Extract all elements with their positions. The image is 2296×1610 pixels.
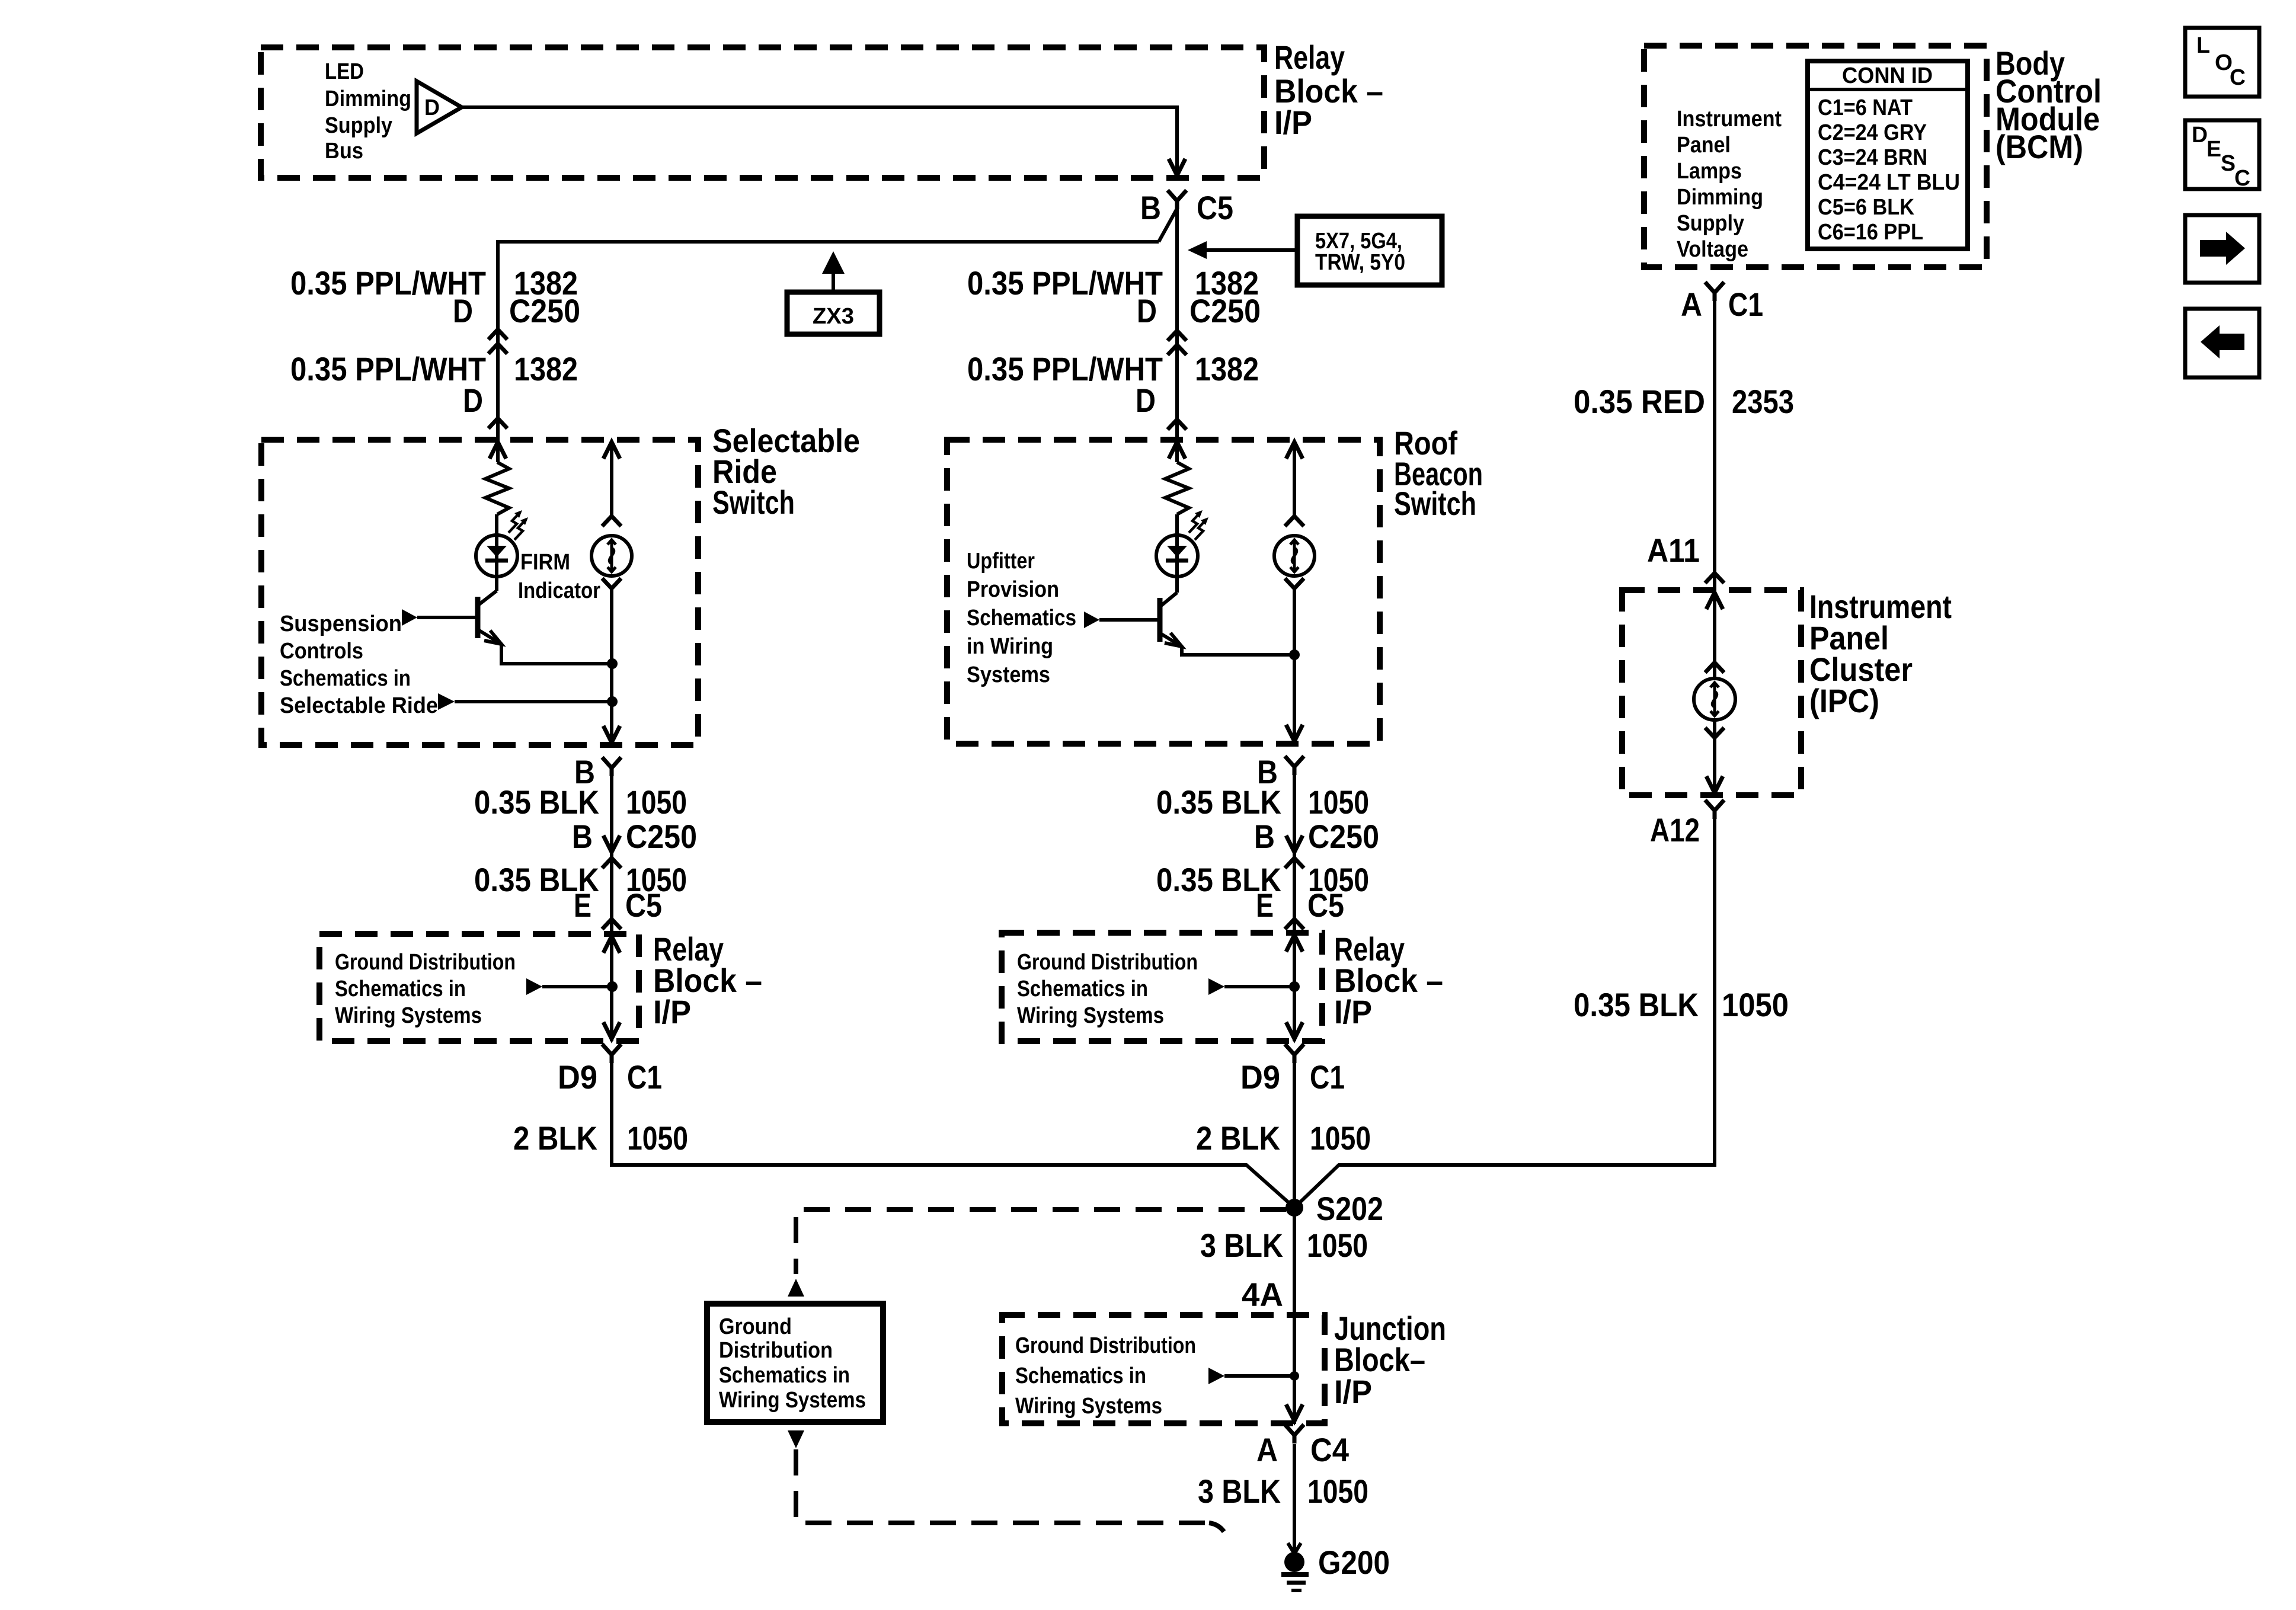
svg-text:1050: 1050 xyxy=(1307,1227,1368,1264)
svg-text:D9: D9 xyxy=(1240,1058,1280,1096)
junction dot (junction block) xyxy=(1290,1371,1299,1381)
svg-text:Schematics in: Schematics in xyxy=(719,1363,850,1388)
svg-text:(IPC): (IPC) xyxy=(1809,682,1879,719)
svg-text:C5: C5 xyxy=(1307,886,1344,924)
svg-text:B: B xyxy=(572,818,593,855)
svg-text:C1=6 NAT: C1=6 NAT xyxy=(1818,95,1913,120)
ground symbol bars xyxy=(1281,1572,1309,1577)
svg-text:Ground Distribution: Ground Distribution xyxy=(335,950,516,975)
connector symbol C250 (left) xyxy=(488,329,507,340)
connector symbol above lamp (roof) xyxy=(1285,516,1304,526)
connector symbol at switch (left) xyxy=(488,418,507,428)
svg-text:D: D xyxy=(463,382,483,419)
svg-text:C250: C250 xyxy=(1308,818,1379,855)
wire inside IPC lower xyxy=(1713,720,1716,793)
svg-text:0.35 PPL/WHT: 0.35 PPL/WHT xyxy=(967,350,1163,388)
svg-text:1050: 1050 xyxy=(627,1119,688,1157)
svg-text:C5: C5 xyxy=(1197,189,1233,226)
svg-text:0.35 BLK: 0.35 BLK xyxy=(1574,986,1699,1023)
reference box 5X7, 5G4, TRW, 5Y0 xyxy=(1297,216,1442,285)
arrow: selectable ride schematics link xyxy=(438,693,455,710)
wire: lamp branch upper xyxy=(610,442,613,516)
connector symbol C250 (center) xyxy=(1168,331,1187,341)
arrowhead leaving relay block bottom (left) xyxy=(603,1022,620,1039)
svg-text:C: C xyxy=(2234,166,2250,191)
connector symbol below BCM xyxy=(1705,282,1724,293)
junction dot (left relay ground) xyxy=(607,981,618,992)
wire: lamp branch upper (roof) xyxy=(1293,442,1296,516)
connector C5 pin B (relay block) xyxy=(1168,190,1187,201)
arrow from reference box to wire xyxy=(1207,248,1297,252)
arrow: ground distribution link (junction) xyxy=(1208,1368,1224,1384)
connector symbol at relay block (left) xyxy=(602,919,621,929)
wire: 0.35 BLK 1050 center vertical xyxy=(1293,767,1296,1041)
svg-text:D: D xyxy=(1136,382,1156,419)
svg-text:A: A xyxy=(1681,286,1702,323)
svg-text:1382: 1382 xyxy=(514,350,578,388)
arrow: suspension controls input xyxy=(402,609,417,626)
wire: emitter to lamp branch (roof) xyxy=(1182,646,1294,655)
resistor (selectable ride switch LED) xyxy=(485,462,509,514)
svg-text:Panel: Panel xyxy=(1677,133,1731,158)
resistor (roof beacon switch LED) xyxy=(1165,462,1189,514)
svg-text:C6=16 PPL: C6=16 PPL xyxy=(1818,220,1923,245)
LED light arrows (roof) xyxy=(1189,512,1201,533)
junction dot (link to lamp branch) xyxy=(607,696,618,707)
connector symbol above IPC lamp xyxy=(1705,662,1724,673)
nav box back arrow xyxy=(2185,309,2259,377)
connector symbol below switch (center) xyxy=(1285,756,1304,767)
svg-text:Schematics in: Schematics in xyxy=(1015,1363,1146,1388)
wire: 0.35 BLK 1050 from IPC to S202 xyxy=(1294,819,1715,1208)
svg-text:C4=24 LT BLU: C4=24 LT BLU xyxy=(1818,170,1960,195)
dashed box: Junction Block - I/P xyxy=(1002,1315,1325,1423)
ground G200 terminal dot xyxy=(1284,1552,1304,1572)
svg-text:Switch: Switch xyxy=(712,484,795,521)
svg-text:1050: 1050 xyxy=(1308,783,1369,821)
svg-text:4A: 4A xyxy=(1242,1276,1283,1313)
svg-text:B: B xyxy=(1254,818,1275,855)
svg-text:D: D xyxy=(1137,292,1157,329)
svg-text:2 BLK: 2 BLK xyxy=(1196,1119,1280,1157)
junction dot (center relay ground) xyxy=(1289,981,1300,992)
svg-text:ZX3: ZX3 xyxy=(813,304,854,329)
svg-text:3 BLK: 3 BLK xyxy=(1200,1227,1283,1264)
svg-text:S202: S202 xyxy=(1316,1190,1383,1227)
svg-text:Indicator: Indicator xyxy=(518,578,600,603)
svg-text:2 BLK: 2 BLK xyxy=(513,1119,597,1157)
nav box LOC xyxy=(2185,28,2259,97)
wire: diagonal joint from selectable ride branch xyxy=(1159,209,1177,242)
svg-text:B: B xyxy=(1140,189,1161,226)
nav box forward arrow xyxy=(2185,215,2259,283)
svg-text:Dimming: Dimming xyxy=(325,87,411,111)
wire: 0.35 RED 2353 from BCM xyxy=(1713,301,1716,572)
svg-text:Schematics in: Schematics in xyxy=(1017,977,1148,1001)
junction dot (emitter to lamp branch) xyxy=(607,658,618,669)
svg-text:Wiring Systems: Wiring Systems xyxy=(1015,1394,1162,1419)
svg-text:E: E xyxy=(1256,886,1274,924)
svg-text:Supply: Supply xyxy=(325,113,392,138)
svg-text:in Wiring: in Wiring xyxy=(967,634,1053,659)
dashed box: Relay Block - I/P (center ground) xyxy=(1002,933,1322,1041)
arrowhead: leaving box bottom (left) xyxy=(603,726,620,742)
LED FIRM indicator xyxy=(476,535,517,577)
svg-text:Switch: Switch xyxy=(1394,485,1476,522)
svg-text:A: A xyxy=(1256,1431,1278,1468)
svg-text:Wiring Systems: Wiring Systems xyxy=(335,1003,482,1028)
svg-text:Upfitter: Upfitter xyxy=(967,549,1035,574)
svg-text:Wiring Systems: Wiring Systems xyxy=(719,1388,866,1413)
dashed box: Body Control Module (BCM) xyxy=(1644,46,1987,267)
wire: resistor to LED xyxy=(495,514,498,535)
svg-text:Dimming: Dimming xyxy=(1677,185,1763,210)
svg-text:I/P: I/P xyxy=(1334,1373,1372,1410)
dashed box: Roof Beacon Switch xyxy=(947,440,1380,744)
svg-text:C5=6 BLK: C5=6 BLK xyxy=(1818,195,1914,220)
svg-text:Relay: Relay xyxy=(1274,39,1345,76)
svg-text:Ground: Ground xyxy=(719,1314,792,1339)
wire: LED cathode to transistor collector xyxy=(495,577,498,591)
arrow: ground distribution link (center relay) xyxy=(1208,978,1224,995)
dashed net: ground distribution path to G200 xyxy=(796,1449,1209,1523)
arrowhead into relay block xyxy=(1169,159,1185,175)
wire: emitter to lamp branch xyxy=(501,644,612,664)
arrow: ground distribution link (left relay) xyxy=(526,978,542,995)
svg-text:3 BLK: 3 BLK xyxy=(1198,1473,1281,1510)
svg-text:S: S xyxy=(2221,151,2236,176)
wire: lamp branch lower to box bottom (roof) xyxy=(1293,588,1296,741)
wire: switch supply branch (roof) xyxy=(1175,440,1179,462)
svg-text:Schematics: Schematics xyxy=(967,606,1076,630)
svg-text:1050: 1050 xyxy=(626,783,687,821)
connector symbol below relay block (left) xyxy=(602,1044,621,1055)
svg-text:A12: A12 xyxy=(1650,811,1700,849)
svg-text:Lamps: Lamps xyxy=(1677,159,1742,184)
svg-text:E: E xyxy=(574,886,591,924)
svg-text:C250: C250 xyxy=(1189,292,1261,329)
svg-text:2353: 2353 xyxy=(1732,383,1794,420)
arrow down from ground distribution box xyxy=(788,1430,804,1448)
wire: resistor to LED (roof) xyxy=(1175,514,1179,535)
connector symbol at relay block (center) xyxy=(1285,919,1304,929)
wire: PPL/WHT 1382 main vertical (roof beacon branch) xyxy=(1175,209,1179,440)
svg-text:Supply: Supply xyxy=(1677,211,1744,236)
dashed box: Instrument Panel Cluster (IPC) xyxy=(1622,590,1801,795)
svg-text:LED: LED xyxy=(325,59,364,84)
connector symbol C250 lower (left) xyxy=(603,836,620,852)
connector symbol below lamp (left) xyxy=(602,578,621,588)
connector symbol below relay block (center) xyxy=(1285,1044,1304,1055)
connector symbol below IPC lamp xyxy=(1705,728,1724,738)
solid box: Ground Distribution Schematics in Wiring Systems xyxy=(707,1304,883,1422)
arrowhead leaving IPC bottom xyxy=(1706,776,1723,793)
svg-text:Ground Distribution: Ground Distribution xyxy=(1015,1333,1196,1358)
svg-text:Wiring Systems: Wiring Systems xyxy=(1017,1003,1164,1028)
dashed net: ground distribution path from S202 xyxy=(796,1209,1286,1274)
svg-text:I/P: I/P xyxy=(1334,993,1372,1030)
svg-text:C1: C1 xyxy=(1728,286,1763,323)
wire: 0.35 BLK 1050 left vertical xyxy=(610,768,613,1041)
svg-text:1382: 1382 xyxy=(1195,350,1259,388)
svg-text:Schematics in: Schematics in xyxy=(335,977,466,1001)
buffer symbol D (LED dimming supply bus driver) xyxy=(417,81,462,133)
svg-text:TRW, 5Y0: TRW, 5Y0 xyxy=(1315,250,1405,275)
connector symbol below lamp (roof) xyxy=(1285,578,1304,588)
dashed box: Relay Block - I/P (left ground) xyxy=(319,934,639,1041)
arrow from ZX3 to wire xyxy=(832,271,835,292)
svg-text:Selectable Ride: Selectable Ride xyxy=(280,693,438,718)
arrowhead leaving relay block bottom (center) xyxy=(1286,1022,1303,1039)
svg-text:Provision: Provision xyxy=(967,577,1059,602)
svg-text:0.35 BLK: 0.35 BLK xyxy=(474,783,599,821)
arrowhead leaving junction block xyxy=(1286,1404,1303,1421)
svg-text:D: D xyxy=(424,95,440,120)
svg-text:Ground Distribution: Ground Distribution xyxy=(1017,950,1198,975)
wire: ground link (junction) xyxy=(1224,1374,1294,1378)
table: CONN ID xyxy=(1808,61,1968,249)
svg-text:Voltage: Voltage xyxy=(1677,237,1748,262)
svg-text:C4: C4 xyxy=(1310,1431,1349,1468)
connector symbol below switch (left) xyxy=(602,757,621,768)
svg-text:C1: C1 xyxy=(1310,1058,1345,1096)
wire: ground link to main (center relay) xyxy=(1224,985,1294,988)
svg-text:C3=24 BRN: C3=24 BRN xyxy=(1818,145,1927,170)
svg-text:Distribution: Distribution xyxy=(719,1338,833,1363)
transistor (selectable ride switch) xyxy=(475,597,481,638)
connector symbol at IPC top xyxy=(1705,573,1724,583)
arrowhead entering relay block top (center) xyxy=(1286,935,1303,952)
wire: transistor base from upfitter provision xyxy=(1099,618,1160,622)
svg-text:C: C xyxy=(2230,65,2246,90)
svg-text:L: L xyxy=(2196,33,2210,58)
svg-text:D: D xyxy=(2192,123,2208,148)
arrowhead entering relay block top (left) xyxy=(603,936,620,953)
arrowhead into selectable ride switch xyxy=(490,442,506,459)
svg-text:1050: 1050 xyxy=(1307,1473,1368,1510)
dashed box: Selectable Ride Switch xyxy=(261,440,698,745)
svg-text:1050: 1050 xyxy=(1722,986,1789,1023)
wire inside IPC upper xyxy=(1713,573,1716,678)
junction dot (roof emitter to lamp branch) xyxy=(1289,649,1300,660)
nav box DESC xyxy=(2185,120,2259,189)
dashed box: Relay Block - I/P (LED Dimming Supply Bus) xyxy=(261,47,1264,178)
svg-text:C2=24 GRY: C2=24 GRY xyxy=(1818,120,1927,145)
option box ZX3 xyxy=(787,292,880,334)
svg-text:1050: 1050 xyxy=(1310,1119,1371,1157)
svg-text:I/P: I/P xyxy=(653,993,691,1030)
svg-text:Instrument: Instrument xyxy=(1677,107,1782,132)
wire: transistor base from suspension controls xyxy=(417,616,478,619)
arrowhead: lamp branch entering roof box top xyxy=(1286,442,1303,459)
svg-text:C1: C1 xyxy=(627,1058,662,1096)
arrowhead into ground xyxy=(1288,1543,1301,1554)
LED roof beacon indicator xyxy=(1156,535,1198,577)
transistor (roof beacon switch) xyxy=(1157,598,1163,642)
connector symbol below junction block xyxy=(1285,1425,1304,1435)
wire: PPL/WHT 1382 horizontal to selectable ride branch xyxy=(498,242,1159,440)
wire: LED cathode to collector (roof) xyxy=(1175,577,1179,593)
illumination lamp symbol (IPC) xyxy=(1694,678,1735,720)
connector symbol below IPC xyxy=(1705,800,1724,811)
svg-text:(BCM): (BCM) xyxy=(1996,128,2083,165)
wire: left ground run to splice S202 xyxy=(612,1063,1294,1208)
wire: center ground to splice S202 xyxy=(1293,1063,1296,1208)
arrow up into ground distribution box xyxy=(788,1279,804,1297)
svg-text:I/P: I/P xyxy=(1274,104,1312,141)
arrowhead: lamp branch entering box top xyxy=(603,442,620,459)
wire: to ground G200 xyxy=(1293,1444,1296,1553)
svg-text:D9: D9 xyxy=(558,1058,597,1096)
svg-text:E: E xyxy=(2207,137,2221,162)
connector symbol C250 lower (center) xyxy=(1286,836,1303,852)
svg-text:Bus: Bus xyxy=(325,139,363,164)
arrowhead into roof beacon switch xyxy=(1169,442,1185,459)
svg-text:CONN ID: CONN ID xyxy=(1842,63,1933,88)
svg-text:0.35 RED: 0.35 RED xyxy=(1574,383,1705,420)
svg-text:0.35 BLK: 0.35 BLK xyxy=(1156,783,1281,821)
svg-text:G200: G200 xyxy=(1318,1544,1390,1581)
wire: lamp branch lower to box bottom xyxy=(610,588,613,742)
svg-text:FIRM: FIRM xyxy=(520,550,570,575)
svg-text:Schematics in: Schematics in xyxy=(280,666,411,691)
svg-text:A11: A11 xyxy=(1647,532,1700,569)
illumination lamp symbol (selectable ride switch) xyxy=(591,536,632,576)
svg-text:Systems: Systems xyxy=(967,662,1050,687)
wire: ground link to main (left relay) xyxy=(542,985,612,988)
connector symbol at roof switch xyxy=(1168,420,1187,430)
wire: switch supply branch (left) xyxy=(496,440,500,462)
LED light arrows xyxy=(509,512,520,533)
wire: S202 down to junction block and G200 xyxy=(1293,1208,1296,1424)
svg-text:C5: C5 xyxy=(625,886,662,924)
svg-text:Controls: Controls xyxy=(280,639,363,664)
arrow: upfitter provision input xyxy=(1084,612,1099,628)
svg-text:0.35 PPL/WHT: 0.35 PPL/WHT xyxy=(967,264,1163,302)
wire: bus output to relay block C5 xyxy=(462,107,1177,174)
arrowhead: leaving roof box bottom xyxy=(1286,725,1303,741)
svg-text:C250: C250 xyxy=(509,292,580,329)
illumination lamp symbol (roof beacon switch) xyxy=(1274,536,1315,576)
svg-text:D: D xyxy=(453,292,473,329)
arrowhead entering IPC top xyxy=(1706,593,1723,609)
connector symbol above lamp (left) xyxy=(602,516,621,526)
svg-text:Suspension: Suspension xyxy=(280,612,402,636)
svg-text:0.35 PPL/WHT: 0.35 PPL/WHT xyxy=(290,350,486,388)
wire: selectable ride link to lamp branch xyxy=(455,700,612,703)
svg-text:C250: C250 xyxy=(626,818,697,855)
splice S202 xyxy=(1285,1199,1303,1217)
